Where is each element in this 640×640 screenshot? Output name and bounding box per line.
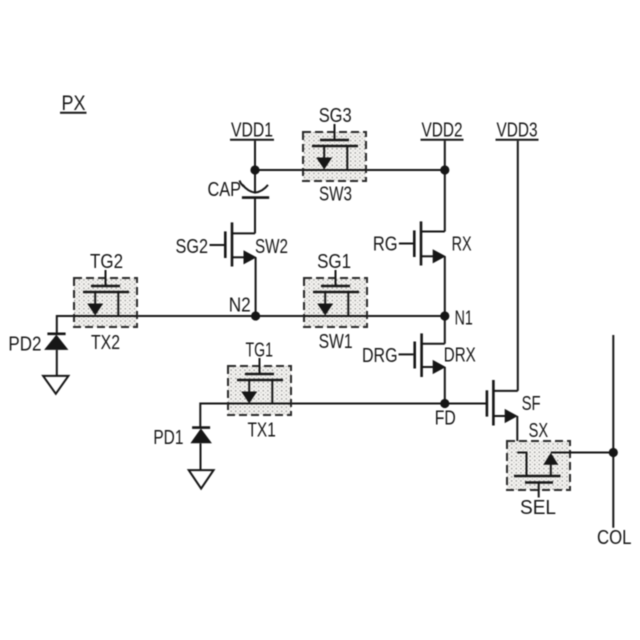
wire FD rail (PD1 branch to SF gate) bbox=[200, 404, 487, 428]
svg-text:SW1: SW1 bbox=[319, 331, 353, 353]
svg-text:VDD3: VDD3 bbox=[497, 120, 538, 142]
svg-text:PX: PX bbox=[62, 92, 86, 115]
svg-text:SG2: SG2 bbox=[176, 236, 209, 258]
power VDD1 bbox=[230, 120, 274, 171]
junction at VDD2 bbox=[440, 165, 449, 174]
svg-text:RG: RG bbox=[373, 233, 398, 255]
transistor RX bbox=[399, 221, 446, 265]
wire SF source to SX bbox=[516, 416, 518, 453]
svg-text:N1: N1 bbox=[455, 308, 473, 330]
wire COL column line bbox=[612, 335, 614, 528]
svg-text:PD1: PD1 bbox=[153, 427, 183, 449]
svg-text:FD: FD bbox=[435, 407, 456, 429]
wire capacitor to SW2 drain bbox=[254, 198, 256, 234]
photodiode PD2 bbox=[44, 334, 68, 376]
svg-text:TG1: TG1 bbox=[246, 340, 274, 362]
power VDD2 bbox=[421, 120, 464, 171]
svg-text:DRX: DRX bbox=[444, 345, 476, 367]
transistor SW1 (in dashed box) bbox=[304, 270, 367, 327]
wire node N2 rail (PD2 branch to N1) bbox=[57, 316, 445, 334]
wire SW2 source to node N2 bbox=[255, 257, 257, 316]
transistor SW2 bbox=[210, 222, 257, 266]
svg-text:RX: RX bbox=[452, 233, 472, 255]
wire DRX source to node FD bbox=[444, 367, 446, 404]
wire VDD3 rail to SF drain bbox=[517, 141, 519, 391]
svg-text:SW3: SW3 bbox=[319, 184, 352, 206]
transistor TX1 (in dashed box) bbox=[228, 358, 291, 415]
transistor DRX bbox=[399, 333, 446, 377]
wire VDD1 node to capacitor bbox=[254, 170, 256, 193]
node FD bbox=[440, 399, 449, 408]
svg-text:SG3: SG3 bbox=[319, 105, 352, 127]
svg-text:TG2: TG2 bbox=[90, 251, 123, 273]
node N1 bbox=[440, 311, 449, 320]
svg-text:SX: SX bbox=[529, 420, 549, 442]
transistor TX2 (in dashed box) bbox=[74, 270, 137, 327]
wire SX output to COL bbox=[551, 452, 614, 454]
transistor SW3 (in dashed box) bbox=[303, 124, 366, 181]
power VDD3 bbox=[496, 120, 539, 142]
transistor SF bbox=[487, 380, 518, 426]
label PX bbox=[60, 92, 87, 115]
svg-text:SG1: SG1 bbox=[317, 251, 351, 273]
wire RX source to node N1 bbox=[444, 256, 446, 316]
junction at VDD1 bbox=[250, 165, 259, 174]
capacitor CAP bbox=[240, 181, 270, 198]
photodiode PD1 bbox=[190, 428, 212, 471]
wire node N1 to DRX drain bbox=[444, 316, 446, 344]
svg-text:COL: COL bbox=[597, 527, 632, 549]
wire VDD2 node to RX drain bbox=[444, 170, 446, 232]
svg-text:VDD2: VDD2 bbox=[422, 120, 463, 142]
svg-text:SF: SF bbox=[522, 393, 541, 415]
svg-text:PD2: PD2 bbox=[8, 334, 41, 356]
svg-text:N2: N2 bbox=[229, 294, 251, 316]
svg-text:SEL: SEL bbox=[520, 497, 556, 519]
svg-text:CAP: CAP bbox=[208, 179, 242, 201]
svg-text:VDD1: VDD1 bbox=[231, 120, 273, 142]
wire top rail VDD1 to VDD2 bbox=[255, 169, 445, 171]
svg-text:SW2: SW2 bbox=[255, 236, 288, 258]
ground (PD2) bbox=[43, 376, 68, 394]
ground (PD1) bbox=[189, 470, 214, 489]
node COL junction bbox=[609, 448, 618, 457]
node N2 bbox=[251, 311, 260, 320]
svg-text:TX1: TX1 bbox=[248, 420, 276, 442]
svg-text:DRG: DRG bbox=[362, 345, 398, 367]
svg-text:TX2: TX2 bbox=[91, 332, 120, 354]
transistor SX (in dashed box) bbox=[507, 441, 570, 498]
